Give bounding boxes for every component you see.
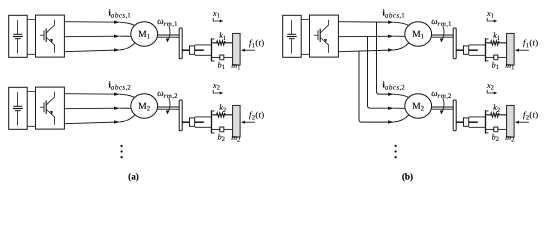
svg-text:k2: k2 — [219, 103, 226, 114]
svg-text:ωrm,2: ωrm,2 — [431, 88, 452, 100]
svg-text:k2: k2 — [493, 103, 500, 114]
svg-text:k1: k1 — [493, 31, 500, 42]
svg-text:b2: b2 — [218, 133, 225, 144]
svg-text:b1: b1 — [218, 61, 225, 72]
svg-text:f1(t): f1(t) — [523, 38, 538, 50]
svg-text:f1(t): f1(t) — [249, 38, 264, 50]
svg-text:ωrm,1: ωrm,1 — [157, 16, 178, 28]
svg-text:ωrm,2: ωrm,2 — [157, 88, 178, 100]
svg-text:f2(t): f2(t) — [249, 110, 264, 122]
svg-text:(b): (b) — [402, 171, 413, 181]
svg-text:b2: b2 — [492, 133, 499, 144]
svg-text:ωrm,1: ωrm,1 — [431, 16, 452, 28]
svg-text:k1: k1 — [219, 31, 226, 42]
svg-text:f2(t): f2(t) — [523, 110, 538, 122]
svg-text:iabcs,1: iabcs,1 — [382, 7, 405, 19]
svg-text:(a): (a) — [128, 171, 139, 181]
svg-text:iabcs,2: iabcs,2 — [382, 79, 405, 91]
svg-text:iabcs,1: iabcs,1 — [108, 7, 131, 19]
svg-text:iabcs,2: iabcs,2 — [108, 79, 131, 91]
svg-text:b1: b1 — [492, 61, 499, 72]
